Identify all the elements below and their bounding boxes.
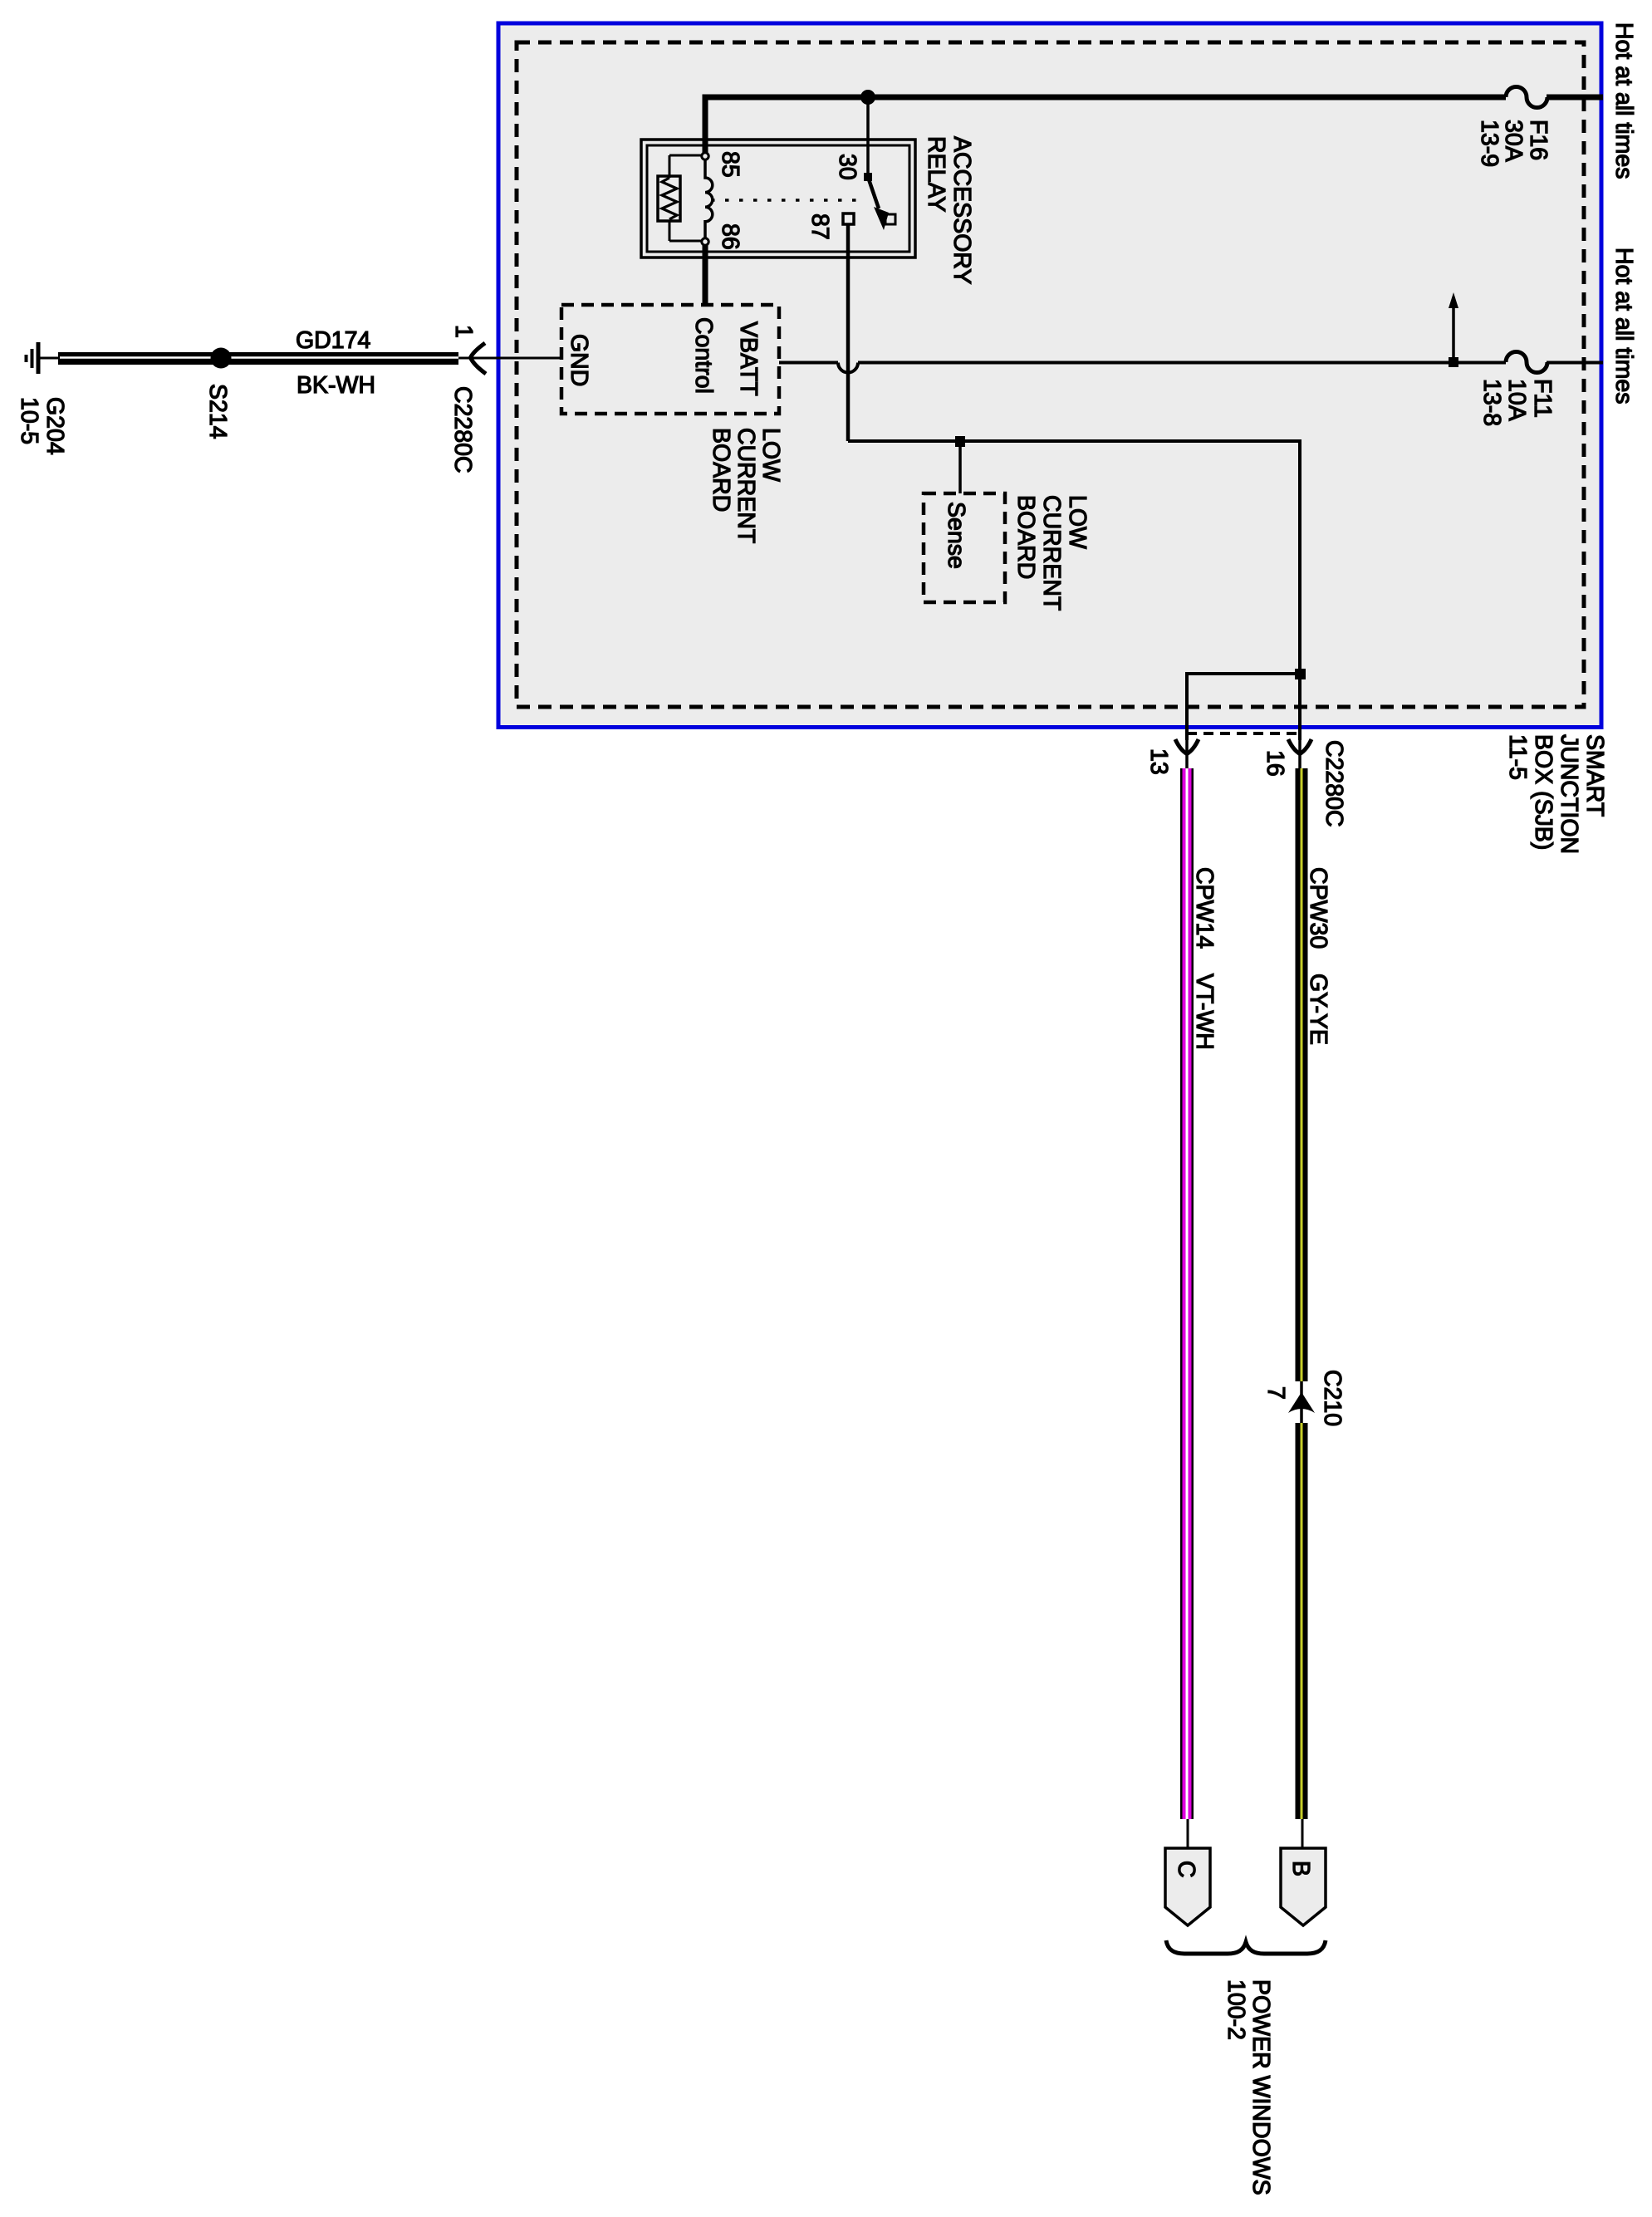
node pin16 branch <box>1295 669 1306 679</box>
svg-text:13-8: 13-8 <box>1478 379 1505 426</box>
wire GD174 BK-WH (heavy double line) <box>58 352 458 365</box>
connector C leader <box>1187 1819 1189 1848</box>
svg-text:F11: F11 <box>1529 379 1556 418</box>
svg-text:87: 87 <box>806 213 833 240</box>
svg-text:1: 1 <box>450 325 477 338</box>
svg-text:F16: F16 <box>1525 120 1552 160</box>
wire: 87 to sense/16 (thin) <box>848 441 1300 674</box>
wire: pin 16 lead <box>1298 740 1302 768</box>
connector C210 arrow symbol <box>1288 1392 1315 1413</box>
connector C2280C (ground side) chevron symbol <box>471 343 487 374</box>
wire: F16 feed (thick) <box>705 97 1506 153</box>
svg-text:G204: G204 <box>42 397 68 455</box>
ground branch <box>16 325 561 473</box>
wire: F16 to box edge (thick) <box>1547 95 1603 101</box>
svg-text:BOARD: BOARD <box>1012 495 1039 579</box>
svg-text:85: 85 <box>717 151 743 178</box>
pin 86 terminal <box>702 238 708 245</box>
accessory relay box (double border) <box>641 140 915 258</box>
resistor zigzag element <box>662 178 677 219</box>
connector C <box>1165 1848 1210 1925</box>
SJB box (Smart Junction Box) <box>498 22 1637 854</box>
wire CPW30 GY-YE (lower, black with yellow stripe) <box>1296 1423 1308 1819</box>
pin 16 exit arrow <box>1288 739 1311 754</box>
resistor (relay coil suppression) body <box>658 176 680 221</box>
low current board box (GND/Control/VBATT) <box>561 305 779 414</box>
svg-text:LOW: LOW <box>757 428 784 482</box>
svg-text:Sense: Sense <box>943 502 969 569</box>
wire: sense tap <box>958 441 962 493</box>
wire CPW14 VT-WH (violet with white stripe) <box>1180 768 1194 1819</box>
svg-text:CURRENT: CURRENT <box>733 428 759 543</box>
wire: pin16 exit <box>1298 674 1302 740</box>
fuse F11 <box>1506 352 1547 373</box>
svg-text:GY-YE: GY-YE <box>1305 974 1331 1045</box>
wire: branch to pin13 <box>1187 674 1300 740</box>
svg-text:10-5: 10-5 <box>16 397 42 444</box>
wire: pin 86 control (thick) <box>703 245 708 306</box>
svg-text:JUNCTION: JUNCTION <box>1556 734 1582 854</box>
low current board boxes <box>561 305 1300 674</box>
relay <box>641 97 975 441</box>
svg-text:Hot at all times: Hot at all times <box>1610 22 1637 179</box>
wire: pin 87 down (thin) <box>846 224 851 441</box>
svg-text:100-2: 100-2 <box>1223 1979 1249 2040</box>
svg-text:86: 86 <box>717 223 743 250</box>
wire: connector to GND pin <box>458 357 561 360</box>
pin 87 terminal <box>843 213 854 224</box>
svg-text:VBATT: VBATT <box>735 321 762 396</box>
svg-text:Hot at all times: Hot at all times <box>1610 248 1637 404</box>
svg-text:CPW14: CPW14 <box>1191 867 1218 949</box>
switch pivot <box>864 173 872 181</box>
sense box <box>924 493 1005 602</box>
svg-text:30A: 30A <box>1500 120 1527 162</box>
svg-text:ACCESSORY: ACCESSORY <box>949 136 975 284</box>
brace <box>1166 1940 1326 1954</box>
svg-text:GD174: GD174 <box>296 327 370 354</box>
connector B <box>1281 1848 1326 1925</box>
switch blade <box>869 179 879 208</box>
svg-text:CPW30: CPW30 <box>1305 867 1331 949</box>
wire: pin 13 lead <box>1185 740 1189 768</box>
svg-text:B: B <box>1287 1861 1314 1876</box>
svg-text:GND: GND <box>566 334 592 386</box>
svg-text:10A: 10A <box>1503 379 1530 421</box>
wire: F11 to box edge (thin) <box>1547 361 1603 365</box>
svg-text:LOW: LOW <box>1064 495 1091 549</box>
dotted armature link <box>711 199 864 202</box>
svg-text:7: 7 <box>1262 1386 1289 1400</box>
wire: pin85 node to resistor top <box>669 155 702 157</box>
svg-text:BK-WH: BK-WH <box>297 372 375 399</box>
svg-text:13: 13 <box>1145 748 1172 775</box>
svg-text:CURRENT: CURRENT <box>1038 495 1065 611</box>
svg-text:POWER WINDOWS: POWER WINDOWS <box>1248 1979 1274 2195</box>
pin 13 exit arrow <box>1175 739 1199 754</box>
wire: VBATT to F11 (thin) with hop <box>779 361 838 365</box>
SJB outer blue box <box>498 23 1601 728</box>
sense tap node <box>955 436 965 447</box>
wire CPW30 GY-YE (upper, black with yellow stripe) <box>1296 768 1308 1381</box>
wire: resistor bottom to pin86 node <box>669 221 671 241</box>
wire: ground symbol stub <box>40 357 58 360</box>
svg-text:16: 16 <box>1262 750 1288 777</box>
svg-text:BOX (SJB): BOX (SJB) <box>1530 734 1556 850</box>
svg-text:C2280C: C2280C <box>449 386 476 473</box>
SJB inner dashed border <box>517 42 1584 707</box>
junction node on F16 wire <box>860 90 875 105</box>
ground G204 symbol <box>37 342 41 374</box>
connector B leader <box>1302 1819 1304 1848</box>
pin 30 lead <box>866 97 870 174</box>
svg-text:30: 30 <box>834 154 860 180</box>
svg-text:BOARD: BOARD <box>708 428 734 512</box>
svg-text:S214: S214 <box>204 384 231 439</box>
arrow stub to other circuits <box>1452 308 1455 362</box>
svg-text:SMART: SMART <box>1581 734 1608 817</box>
output wires <box>1145 669 1347 2195</box>
svg-text:Control: Control <box>690 317 717 394</box>
pin 85 terminal <box>702 153 708 159</box>
svg-text:13-9: 13-9 <box>1476 120 1502 167</box>
splice S214 <box>211 348 232 369</box>
svg-text:RELAY: RELAY <box>923 136 949 212</box>
wire hop over pin87 wire <box>838 363 858 373</box>
junction node on F11 wire <box>1449 357 1458 367</box>
svg-text:11-5: 11-5 <box>1504 734 1531 780</box>
svg-text:C2280C: C2280C <box>1321 740 1347 827</box>
blade rest contact <box>885 214 895 224</box>
wire: C210 splice lead <box>1300 1381 1303 1423</box>
svg-text:C210: C210 <box>1319 1370 1346 1426</box>
fuse F16 <box>1506 86 1547 107</box>
svg-text:C: C <box>1173 1861 1199 1878</box>
relay coil <box>705 160 713 238</box>
connector C2280C dashed line <box>1187 732 1302 735</box>
svg-text:VT-WH: VT-WH <box>1191 974 1218 1050</box>
